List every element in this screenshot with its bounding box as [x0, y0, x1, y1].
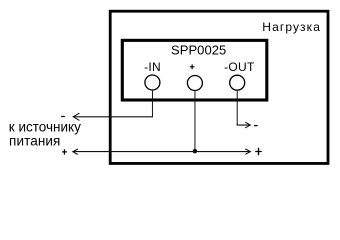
label - (load minus, right)	[254, 125, 258, 126]
module U1 SPP0025 box	[122, 40, 266, 100]
junction dot	[193, 149, 197, 153]
arrowhead minus out	[245, 122, 250, 128]
arrowhead minus input	[73, 113, 79, 120]
svg-text:Нагрузка: Нагрузка	[262, 20, 321, 34]
label + (source plus, left)	[62, 149, 67, 154]
svg-text:SPP0025: SPP0025	[171, 43, 226, 58]
wire -IN horizontal to source minus	[73, 116, 153, 118]
terminal +	[187, 76, 202, 91]
arrowhead plus left	[73, 149, 78, 155]
pin label +	[190, 64, 195, 69]
terminal -IN	[145, 75, 160, 90]
terminal -OUT	[230, 75, 245, 90]
wire + vertical	[194, 91, 196, 152]
wire -OUT horizontal	[237, 124, 251, 126]
label + (load plus, right)	[255, 148, 262, 155]
svg-text:-OUT: -OUT	[224, 60, 255, 74]
load box (Нагрузка enclosure)	[110, 11, 328, 163]
svg-text:-IN: -IN	[144, 60, 161, 74]
arrowhead plus right	[245, 149, 250, 154]
wire -OUT vertical	[236, 91, 238, 126]
label - (source minus)	[61, 116, 65, 117]
svg-text:питания: питания	[9, 134, 60, 149]
wire + horizontal bus	[73, 151, 251, 153]
wire -IN vertical	[151, 91, 153, 118]
svg-text:к источнику: к источнику	[9, 119, 81, 134]
